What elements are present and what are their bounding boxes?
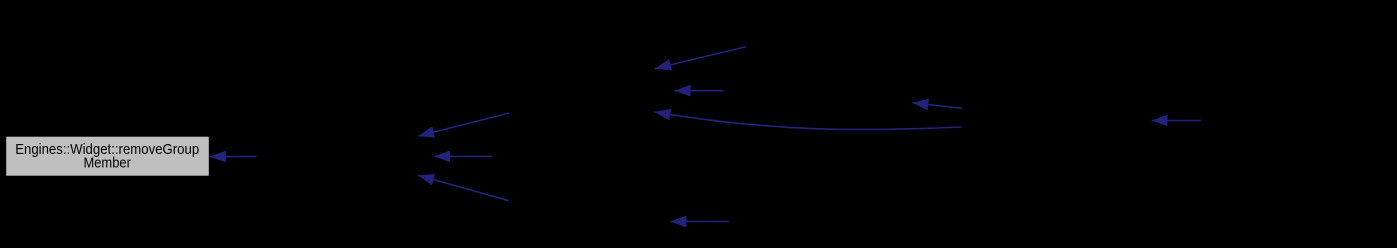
edge arrow A-top (diagonal into invisible node col2) <box>418 113 509 136</box>
edge arrow C (into invisible node col4) <box>912 103 962 109</box>
edge arrow A-bottom (diagonal into invisible node col2) <box>418 175 509 200</box>
edge arrow A-mid (horizontal into invisible node col2) <box>434 155 492 157</box>
edge long curve from col5 into invisible node col3 <box>654 112 961 130</box>
edge arrow D (horizontal, bottom) <box>670 221 729 223</box>
node Engines::Widget::removeGroupMember (current, grey) <box>6 136 210 176</box>
svg-text:Member: Member <box>83 156 131 172</box>
edge arrow into removeGroupMember node <box>210 156 257 158</box>
edge arrow E (horizontal into invisible node col5) <box>1152 120 1201 122</box>
edge arrow B-mid (horizontal into invisible node col3) <box>675 90 724 92</box>
edge arrow B-top (diagonal into invisible node col3) <box>655 47 746 69</box>
